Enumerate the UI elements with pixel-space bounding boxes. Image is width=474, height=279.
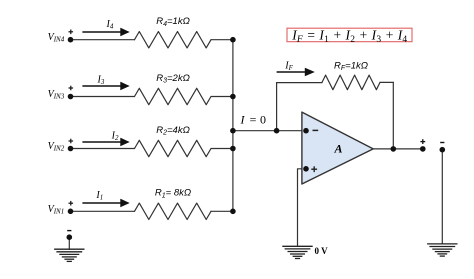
svg-text:VIN4: VIN4 — [48, 32, 65, 44]
wire R3 to bus — [211, 96, 233, 98]
resistor RF — [322, 75, 380, 90]
node dot input row 4 — [68, 37, 74, 43]
svg-text:I4: I4 — [106, 19, 114, 31]
node dot output minus terminal — [440, 147, 446, 153]
resistor R4 — [135, 32, 212, 48]
wire feedback up — [276, 83, 278, 131]
svg-text:R3=2kΩ: R3=2kΩ — [156, 73, 190, 85]
polarity plus input row 4 — [69, 30, 74, 35]
polarity plus input row 2 — [69, 139, 74, 144]
op-amp U1 — [302, 112, 373, 184]
svg-text:IF = I1 + I2 + I3 + I4: IF = I1 + I2 + I3 + I4 — [291, 27, 407, 45]
wire bus to inverting input — [233, 130, 306, 132]
node dot input row 1 — [68, 209, 74, 215]
wire input row 4 — [71, 39, 135, 41]
svg-text:R2=4kΩ: R2=4kΩ — [156, 125, 190, 137]
resistor R3 — [135, 88, 212, 104]
junction dot output feedback — [391, 146, 397, 152]
wire R1 to bus — [211, 210, 233, 212]
svg-text:VIN3: VIN3 — [48, 89, 65, 101]
node dot input common minus terminal — [67, 234, 73, 240]
polarity plus output terminal — [420, 139, 425, 144]
svg-text:IF: IF — [284, 61, 293, 73]
wire RF to right drop — [380, 81, 393, 83]
node dot noninverting input — [303, 166, 309, 172]
polarity minus input common — [67, 230, 71, 232]
wire op-amp output — [373, 148, 423, 150]
junction dot bus row 2 — [230, 146, 236, 152]
wire noninverting input — [298, 169, 307, 247]
svg-text:I = 0: I = 0 — [240, 112, 267, 126]
current arrow IF — [277, 69, 313, 75]
svg-text:0 V: 0 V — [315, 246, 329, 256]
svg-text:A: A — [334, 142, 343, 156]
resistor R2 — [135, 140, 212, 156]
wire input row 3 — [71, 96, 135, 98]
junction dot bus inverting wire — [230, 128, 236, 134]
junction dot bus row 1 — [230, 209, 236, 215]
svg-text:VIN2: VIN2 — [48, 141, 65, 153]
wire input row 1 — [71, 210, 135, 212]
wire summing bus vertical — [232, 40, 234, 212]
wire R2 to bus — [211, 148, 233, 150]
node dot input row 3 — [68, 94, 74, 100]
svg-text:R1= 8kΩ: R1= 8kΩ — [155, 188, 191, 200]
svg-text:VIN1: VIN1 — [48, 204, 65, 216]
node dot input row 2 — [68, 146, 74, 152]
svg-text:I1: I1 — [95, 190, 103, 202]
junction dot bus row 3 — [230, 94, 236, 100]
wire feedback top to RF — [277, 82, 322, 84]
ground input common — [54, 249, 84, 261]
svg-text:I3: I3 — [97, 75, 105, 87]
resistor R1 — [135, 203, 212, 219]
node dot inverting input — [303, 128, 309, 134]
wire negative output terminal down — [441, 150, 443, 244]
current arrow I4 — [82, 29, 128, 35]
current arrow I2 — [82, 139, 128, 145]
polarity plus input row 3 — [69, 86, 74, 91]
junction dot feedback tap — [274, 128, 280, 134]
svg-text:I2: I2 — [111, 130, 119, 142]
ground 0V at op-amp — [282, 246, 312, 258]
wire R4 to bus — [211, 39, 233, 41]
current arrow I3 — [82, 83, 128, 89]
polarity minus output terminal — [440, 142, 444, 144]
svg-text:R4=1kΩ: R4=1kΩ — [156, 16, 190, 28]
junction dot bus row 4 — [230, 37, 236, 43]
node dot output plus terminal — [420, 146, 426, 152]
polarity plus input row 1 — [69, 201, 74, 206]
wire input common terminal to ground — [68, 237, 70, 249]
ground output — [427, 244, 457, 256]
equation box IF sum — [287, 27, 412, 45]
wire feedback down to output — [392, 82, 394, 148]
svg-text:RF=1kΩ: RF=1kΩ — [334, 60, 368, 72]
current arrow I1 — [82, 200, 128, 206]
wire input row 2 — [71, 148, 135, 150]
